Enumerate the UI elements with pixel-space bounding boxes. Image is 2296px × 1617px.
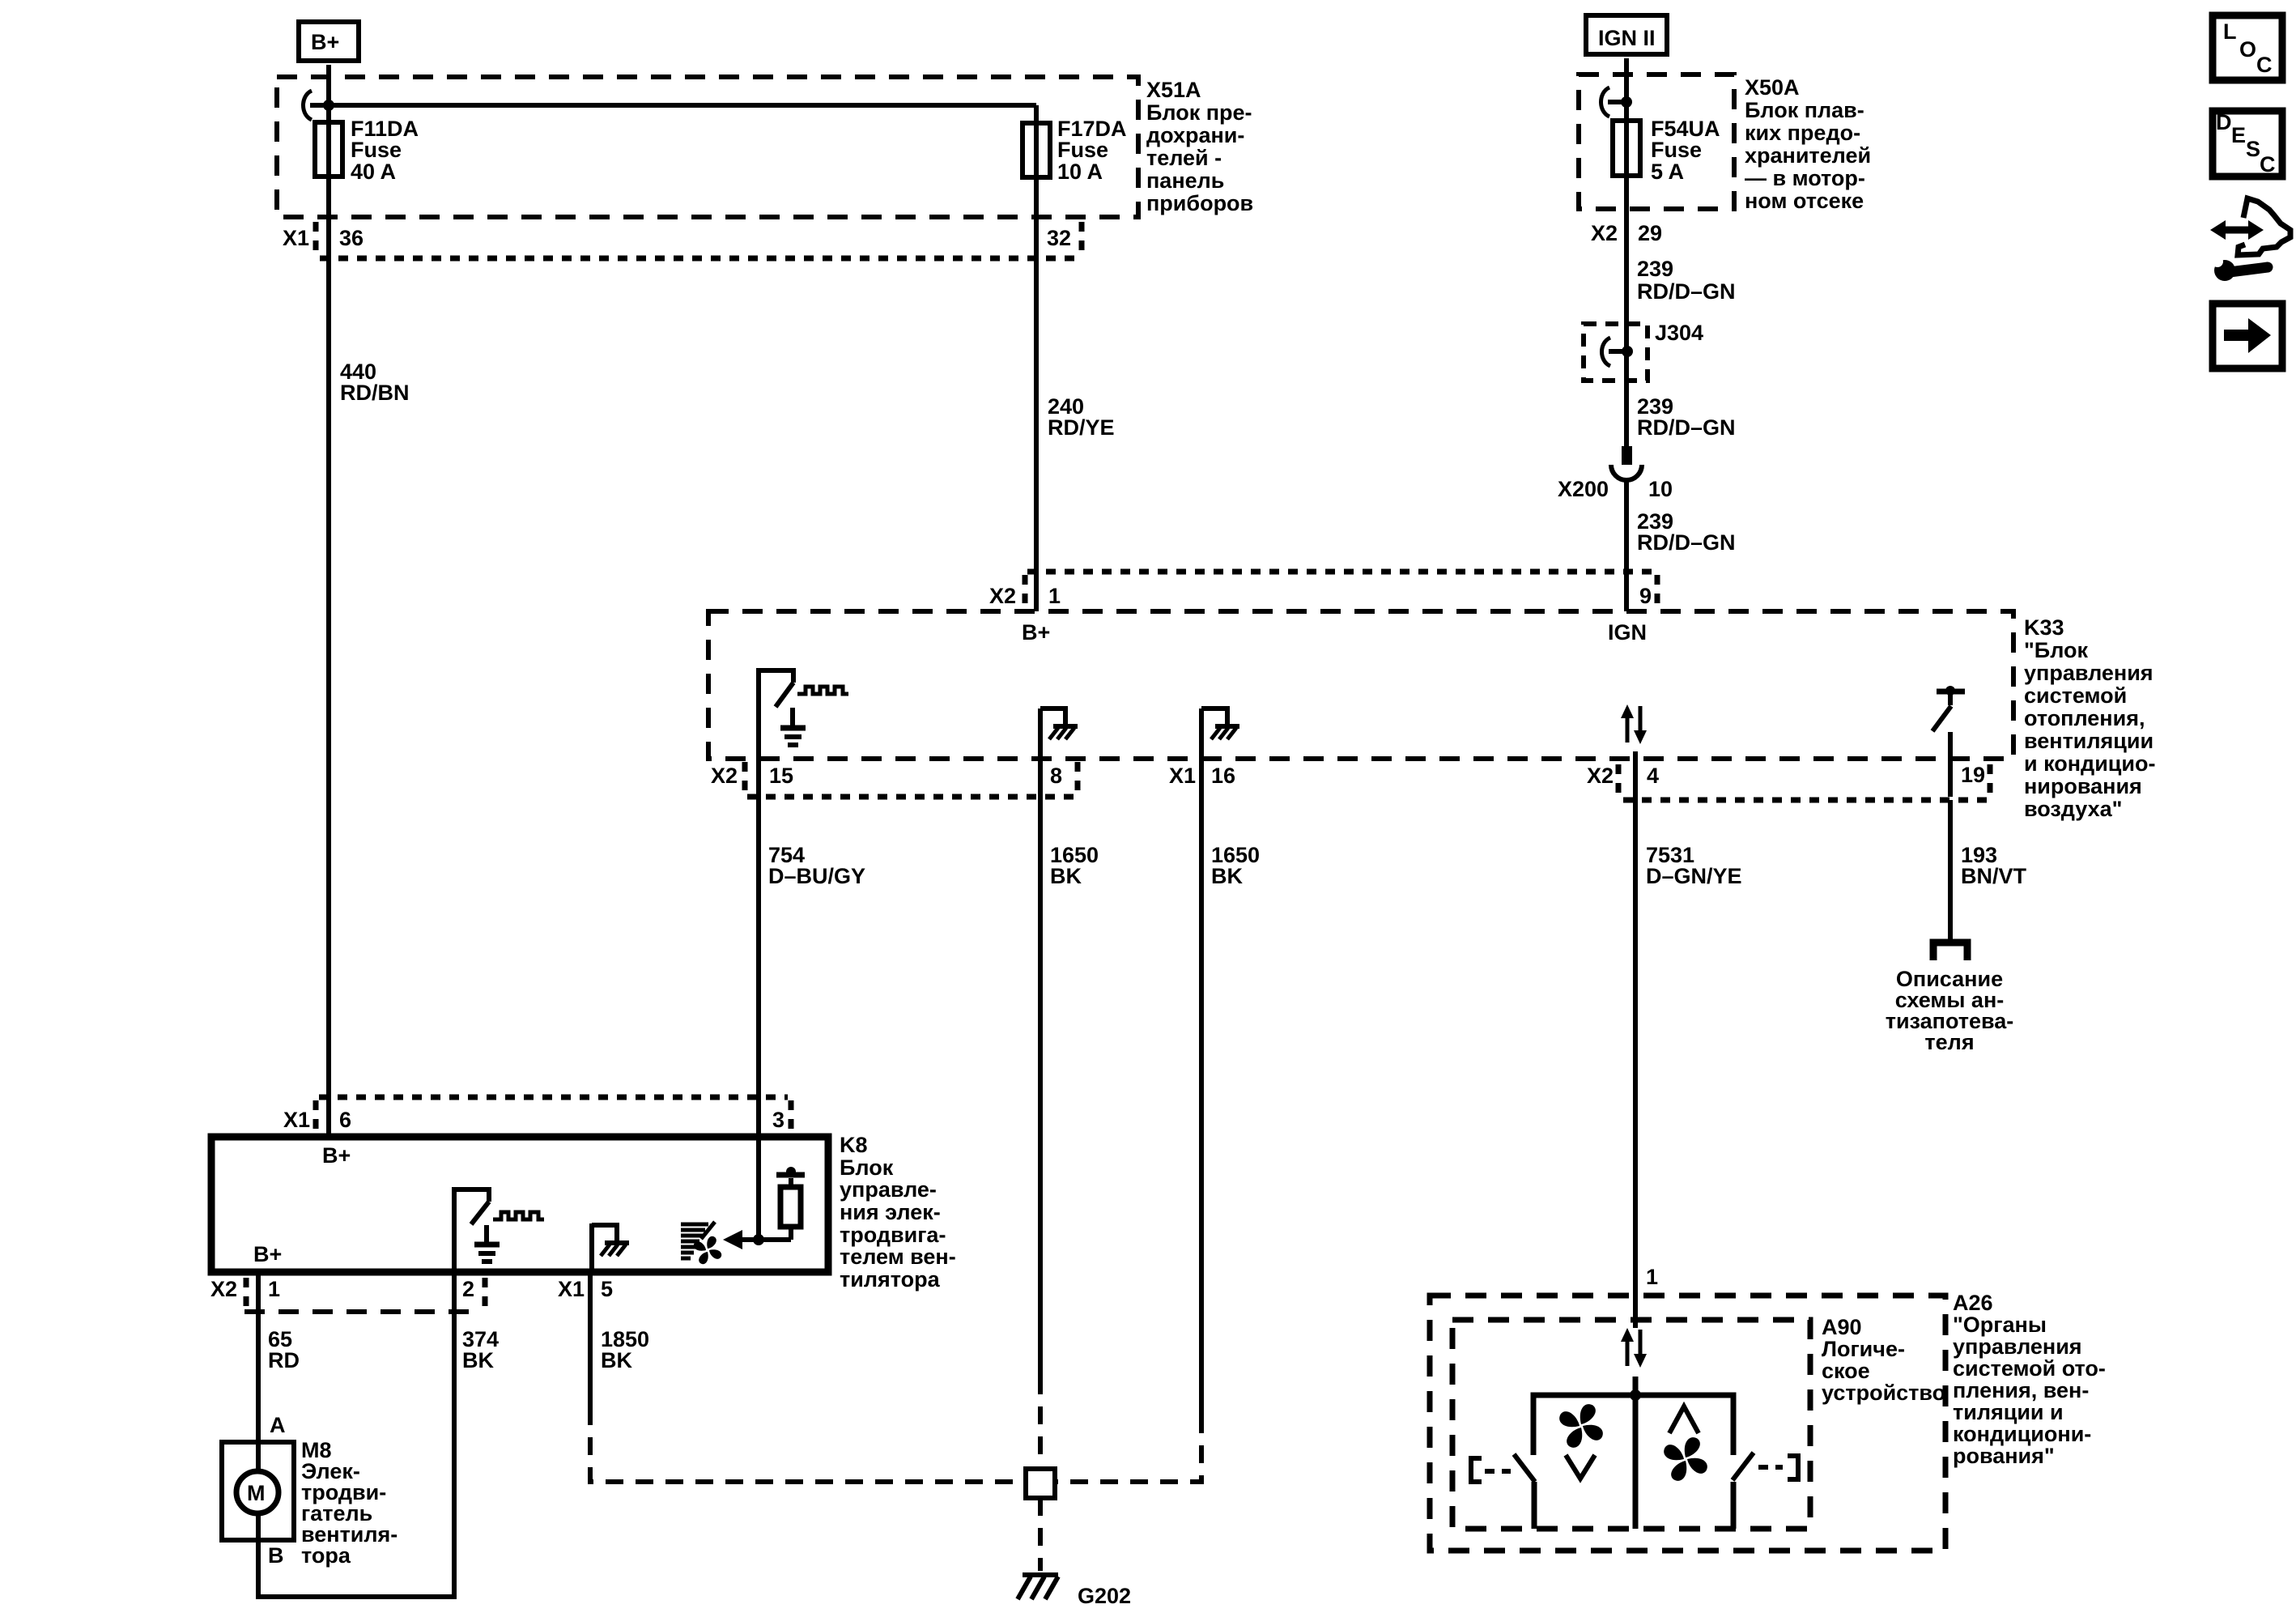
svg-text:9: 9 xyxy=(1639,584,1652,608)
fuse block X51A dashed box xyxy=(277,77,1138,217)
svg-text:C: C xyxy=(2260,152,2276,177)
svg-text:B: B xyxy=(268,1543,284,1568)
A90 logic device dashed box xyxy=(1452,1320,1810,1529)
svg-text:4: 4 xyxy=(1647,764,1659,788)
bus wire from B+ feed to F17DA xyxy=(310,103,1036,108)
svg-text:X2: X2 xyxy=(1587,764,1614,788)
svg-text:Логиче-: Логиче- xyxy=(1822,1337,1905,1361)
svg-text:X2: X2 xyxy=(711,764,738,788)
svg-text:BK: BK xyxy=(1211,864,1243,888)
svg-text:BK: BK xyxy=(462,1348,494,1372)
svg-text:X2: X2 xyxy=(1591,221,1618,245)
svg-text:устройство: устройство xyxy=(1822,1381,1945,1405)
svg-text:Fuse: Fuse xyxy=(1057,138,1108,162)
svg-text:Fuse: Fuse xyxy=(351,138,402,162)
svg-text:A: A xyxy=(270,1413,286,1437)
svg-text:управления: управления xyxy=(1953,1334,2082,1359)
svg-text:тиляции и: тиляции и xyxy=(1953,1400,2064,1424)
M8 label xyxy=(301,1438,398,1568)
svg-text:управления: управления xyxy=(2024,661,2154,685)
svg-text:кондициони-: кондициони- xyxy=(1953,1422,2091,1446)
wire 239 RD/D-GN label (below J304) xyxy=(1637,394,1736,440)
wire 1850 BK label xyxy=(601,1327,649,1372)
svg-text:воздуха": воздуха" xyxy=(2024,797,2122,821)
wire 7531 D-GN/YE from K33 pin 4 to A26 xyxy=(1633,751,1638,1328)
svg-text:приборов: приборов xyxy=(1146,191,1253,215)
svg-text:тилятора: тилятора xyxy=(840,1267,941,1291)
power feed B+ box xyxy=(299,22,359,61)
svg-text:1: 1 xyxy=(1646,1265,1658,1289)
svg-text:RD: RD xyxy=(268,1348,300,1372)
svg-text:O: O xyxy=(2239,37,2256,62)
right actuator bracket xyxy=(1788,1456,1798,1479)
wire 754 D-BU/GY from K33 to K8 pin 3 xyxy=(756,797,761,1240)
svg-text:X1: X1 xyxy=(558,1277,585,1301)
connector row X1 pins 6 / 3 into K8 xyxy=(283,1097,791,1134)
svg-text:Блок плав-: Блок плав- xyxy=(1745,98,1864,122)
svg-text:"Блок: "Блок xyxy=(2024,638,2088,662)
blower fan icon in K8 xyxy=(681,1222,721,1264)
svg-text:40 A: 40 A xyxy=(351,160,396,184)
svg-text:рования": рования" xyxy=(1953,1444,2055,1468)
wire 1850 BK dashed run to splice pack xyxy=(588,1275,593,1407)
svg-text:панель: панель xyxy=(1146,168,1224,193)
fuse block X50A dashed box xyxy=(1579,74,1734,209)
wire 1650 BK from K33 pin 8 xyxy=(1038,797,1043,1377)
chassis ground at K33 pin X2/8 xyxy=(1040,709,1078,797)
svg-text:телей -: телей - xyxy=(1146,146,1222,170)
icon replace part: double arrow, part outline, wrench xyxy=(2210,198,2290,281)
svg-text:1: 1 xyxy=(268,1277,280,1301)
svg-text:нирования: нирования xyxy=(2024,774,2142,798)
PWM low-side driver at K33 pin X2/15 xyxy=(759,668,848,797)
svg-text:239: 239 xyxy=(1637,257,1673,281)
svg-text:системой: системой xyxy=(2024,683,2127,708)
svg-text:BK: BK xyxy=(601,1348,632,1372)
junction node xyxy=(323,100,334,111)
svg-text:тродвига-: тродвига- xyxy=(840,1223,946,1247)
svg-text:теля: теля xyxy=(1924,1030,1974,1054)
svg-text:36: 36 xyxy=(339,226,364,250)
M8 blower motor box xyxy=(222,1442,294,1540)
svg-text:BK: BK xyxy=(1050,864,1082,888)
K8 blower control module box xyxy=(211,1137,828,1272)
fuse F11DA xyxy=(315,117,419,184)
svg-text:X200: X200 xyxy=(1558,477,1609,501)
chassis ground at K33 pin X1/16 xyxy=(1201,709,1239,797)
off-page terminator for 193 circuit xyxy=(1933,943,1967,960)
svg-text:отопления,: отопления, xyxy=(2024,706,2145,730)
switch at K33 pin X2/19 xyxy=(1932,686,1965,797)
svg-text:вентиляции: вентиляции xyxy=(2024,729,2154,753)
fan decrease icon xyxy=(1559,1404,1603,1448)
svg-text:32: 32 xyxy=(1047,226,1071,250)
svg-text:"Органы: "Органы xyxy=(1953,1313,2047,1337)
connector labels X2 / 29 xyxy=(1591,221,1662,245)
PWM low-side driver at K8 pin X2/2 xyxy=(454,1187,544,1272)
svg-text:X51A: X51A xyxy=(1146,78,1201,102)
dashed lead to G202 xyxy=(1038,1498,1043,1571)
svg-text:E: E xyxy=(2231,123,2246,147)
svg-text:5: 5 xyxy=(601,1277,613,1301)
chassis ground at K8 pin X1/5 xyxy=(592,1223,629,1272)
svg-text:D: D xyxy=(2216,110,2232,134)
svg-text:RD/BN: RD/BN xyxy=(340,381,410,405)
svg-text:K8: K8 xyxy=(840,1133,868,1157)
wire IGN feed down (lower part) to K33 pin X2/9 xyxy=(1624,480,1629,611)
resistor element xyxy=(780,1187,801,1227)
svg-text:B+: B+ xyxy=(253,1242,282,1266)
svg-text:A90: A90 xyxy=(1822,1315,1862,1339)
note text antifog circuit xyxy=(1886,967,2014,1054)
driver output stage: terminal, resistor, arrow to fan in K8 xyxy=(723,1167,805,1249)
svg-text:системой ото-: системой ото- xyxy=(1953,1356,2106,1381)
svg-text:RD/D–GN: RD/D–GN xyxy=(1637,530,1736,555)
svg-text:телем вен-: телем вен- xyxy=(840,1245,956,1269)
svg-text:10 A: 10 A xyxy=(1057,160,1103,184)
connector row X2 pins 15 / 8 below K33 xyxy=(711,762,1080,797)
K33 label xyxy=(2024,615,2155,821)
svg-text:Блок: Блок xyxy=(840,1155,894,1180)
svg-text:управле-: управле- xyxy=(840,1177,937,1202)
wire 1650 BK from K33 pin 16 xyxy=(1199,797,1204,1415)
svg-text:пления, вен-: пления, вен- xyxy=(1953,1378,2089,1402)
wire 65 RD to M8 terminal A xyxy=(256,1272,261,1471)
svg-text:Блок пре-: Блок пре- xyxy=(1146,100,1252,125)
svg-text:X50A: X50A xyxy=(1745,75,1800,100)
svg-text:15: 15 xyxy=(769,764,793,788)
wire 374 BK label xyxy=(462,1327,499,1372)
svg-text:и кондицио-: и кондицио- xyxy=(2024,751,2155,776)
svg-text:IGN: IGN xyxy=(1608,620,1647,645)
svg-text:X2: X2 xyxy=(989,584,1016,608)
svg-text:RD/YE: RD/YE xyxy=(1048,415,1115,440)
wire 240 RD/YE label xyxy=(1048,394,1115,440)
svg-text:D–GN/YE: D–GN/YE xyxy=(1646,864,1742,888)
svg-text:1: 1 xyxy=(1048,584,1061,608)
connector row X1 pins 36 / 32 xyxy=(283,222,1082,258)
clip hook at X50A junction xyxy=(1601,87,1610,117)
connector row X2 pins 1 / 9 into K33 xyxy=(989,572,1660,608)
svg-text:хранителей: хранителей xyxy=(1745,143,1871,168)
icon LOC xyxy=(2213,15,2282,80)
connector row X2 pins 4 / 19 below K33 xyxy=(1587,763,1992,800)
svg-text:ское: ское xyxy=(1822,1359,1870,1383)
svg-text:M: M xyxy=(247,1481,266,1505)
earth ground symbol in K8 xyxy=(474,1225,500,1262)
icon forward arrow xyxy=(2213,304,2282,368)
X51A label xyxy=(1146,78,1253,215)
connector row X2 pins 1 / 2 and X1 / 5 below K8 xyxy=(210,1277,613,1312)
svg-text:2: 2 xyxy=(462,1277,474,1301)
A90 label xyxy=(1822,1315,1945,1405)
svg-text:BN/VT: BN/VT xyxy=(1961,864,2027,888)
A26 label xyxy=(1953,1291,2106,1468)
svg-text:X1: X1 xyxy=(1169,764,1196,788)
svg-text:29: 29 xyxy=(1638,221,1662,245)
svg-text:A26: A26 xyxy=(1953,1291,1993,1315)
svg-text:L: L xyxy=(2223,19,2237,44)
svg-text:K33: K33 xyxy=(2024,615,2064,640)
svg-text:IGN II: IGN II xyxy=(1598,26,1656,50)
clip hook at B+ junction xyxy=(304,91,313,120)
junction node xyxy=(1621,96,1632,108)
svg-text:5 A: 5 A xyxy=(1651,160,1684,184)
wire 193 BN/VT from K33 pin 19 xyxy=(1948,800,1953,940)
splice pack junction square xyxy=(1026,1469,1055,1498)
K8 label xyxy=(840,1133,956,1291)
left actuator bracket xyxy=(1471,1458,1482,1482)
wire IGN feed down (upper part) xyxy=(1624,58,1629,465)
svg-text:B+: B+ xyxy=(1022,620,1050,645)
svg-text:8: 8 xyxy=(1050,764,1062,788)
connector labels X1 / 16 below K33 xyxy=(1169,764,1235,788)
fan increase icon xyxy=(1669,1406,1699,1433)
power feed IGN II box xyxy=(1586,15,1667,54)
middle wire xyxy=(1633,1377,1639,1529)
svg-text:G202: G202 xyxy=(1078,1584,1131,1608)
svg-text:тора: тора xyxy=(301,1543,351,1568)
svg-text:X2: X2 xyxy=(210,1277,237,1301)
motor symbol M8 xyxy=(236,1471,278,1513)
left switch arm xyxy=(1514,1454,1535,1482)
X50A label xyxy=(1745,75,1871,213)
svg-text:19: 19 xyxy=(1961,763,1985,787)
svg-text:16: 16 xyxy=(1211,764,1235,788)
svg-text:ном отсеке: ном отсеке xyxy=(1745,189,1864,213)
svg-text:Fuse: Fuse xyxy=(1651,138,1702,162)
serial data arrows in A90 xyxy=(1621,1328,1647,1368)
svg-text:D–BU/GY: D–BU/GY xyxy=(768,864,865,888)
wire 239 RD/D-GN label (below X200) xyxy=(1637,509,1736,555)
icon DESC xyxy=(2213,110,2282,177)
right switch arm xyxy=(1733,1453,1754,1480)
serial data arrows at K33 pin X2/4 xyxy=(1621,704,1647,744)
svg-text:3: 3 xyxy=(772,1108,784,1132)
ground G202 xyxy=(1018,1575,1131,1608)
wire 239 RD/D-GN label (above J304) xyxy=(1637,257,1736,304)
svg-text:ния элек-: ния элек- xyxy=(840,1200,941,1224)
wire 374 BK return from M8 to K8 pin 2 xyxy=(258,1272,454,1597)
svg-text:B+: B+ xyxy=(311,30,339,54)
svg-text:RD/D–GN: RD/D–GN xyxy=(1637,279,1736,304)
svg-text:X1: X1 xyxy=(283,226,309,250)
fuse F54UA xyxy=(1613,117,1720,184)
svg-text:J304: J304 xyxy=(1655,321,1703,345)
svg-text:6: 6 xyxy=(339,1108,351,1132)
svg-text:дохрани-: дохрани- xyxy=(1146,123,1244,147)
svg-text:X1: X1 xyxy=(283,1108,310,1132)
fuse F17DA xyxy=(1023,117,1127,184)
svg-text:— в мотор-: — в мотор- xyxy=(1745,166,1865,190)
inline connector X200 pin 10 xyxy=(1558,446,1673,501)
K33 HVAC control module dashed box xyxy=(708,611,2013,759)
splice J304 xyxy=(1584,321,1703,381)
svg-text:S: S xyxy=(2246,137,2260,161)
earth ground symbol in K33 xyxy=(780,708,806,745)
svg-text:RD/D–GN: RD/D–GN xyxy=(1637,415,1736,440)
wire B+ feed down to K8 pin X1/6 xyxy=(326,65,331,1137)
wire F17DA branch down to K33 pin X2/1 xyxy=(1034,105,1039,611)
A26 HVAC controls dashed box xyxy=(1430,1296,1945,1551)
svg-text:10: 10 xyxy=(1648,477,1673,501)
svg-text:C: C xyxy=(2256,53,2273,77)
wire 440 RD/BN label xyxy=(340,360,410,405)
wire 65 RD label xyxy=(268,1327,300,1372)
svg-text:B+: B+ xyxy=(322,1143,351,1168)
top wire with node xyxy=(1533,1395,1733,1455)
svg-text:ких предо-: ких предо- xyxy=(1745,121,1860,145)
